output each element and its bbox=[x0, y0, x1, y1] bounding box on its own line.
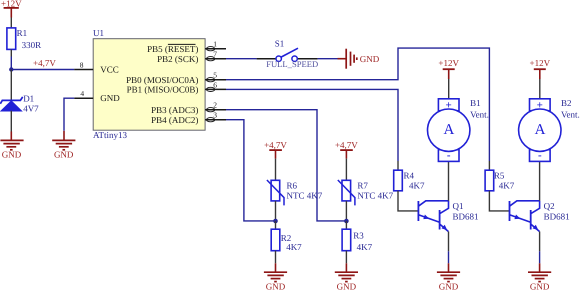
wire +4,7V to R6 bbox=[275, 159, 277, 181]
pin 3 PB4 bbox=[151, 111, 226, 125]
wire pin 4 to ground bbox=[64, 98, 74, 131]
svg-text:Q2: Q2 bbox=[544, 201, 555, 211]
svg-text:GND: GND bbox=[337, 282, 357, 291]
power +12V symbol above B2 bbox=[530, 58, 551, 79]
svg-text:+12V: +12V bbox=[438, 58, 459, 68]
svg-text:+4,7V: +4,7V bbox=[335, 140, 358, 150]
svg-text:U1: U1 bbox=[93, 28, 104, 38]
wire S1 to GND bbox=[318, 58, 338, 60]
ground symbol right of S1 (horizontal) bbox=[338, 49, 380, 69]
svg-text:4K7: 4K7 bbox=[499, 180, 515, 190]
ground symbol below R3 bbox=[335, 263, 358, 291]
wire pin 5 to R5 column bbox=[226, 48, 489, 161]
svg-text:GND: GND bbox=[100, 93, 120, 103]
motor B1 Vent. bbox=[428, 98, 489, 162]
wire +12V to motor B1 bbox=[448, 79, 450, 99]
wire R3 to GND bbox=[345, 251, 347, 264]
wire R7 to node bbox=[345, 201, 347, 221]
svg-text:A: A bbox=[535, 122, 546, 138]
svg-text:B1: B1 bbox=[470, 98, 481, 108]
svg-text:R5: R5 bbox=[494, 170, 505, 180]
wire R4 to Q1 base bbox=[398, 191, 418, 211]
svg-text:R6: R6 bbox=[287, 180, 298, 190]
pin 2 PB3 bbox=[151, 101, 226, 115]
transistor Q2 BD681 (darlington) bbox=[510, 201, 570, 232]
svg-text:R7: R7 bbox=[357, 180, 368, 190]
wire pin 2 to R7/R3 node bbox=[226, 110, 346, 221]
svg-text:3: 3 bbox=[213, 111, 217, 120]
wire pin 7 to switch S1 bbox=[226, 58, 257, 60]
junction node R6/R2 bbox=[273, 219, 278, 224]
svg-text:PB0 (MOSI/OC0A): PB0 (MOSI/OC0A) bbox=[126, 75, 198, 85]
svg-text:1: 1 bbox=[213, 40, 217, 49]
svg-text:BD681: BD681 bbox=[544, 212, 570, 222]
wire R5 to Q2 base bbox=[489, 191, 509, 211]
svg-text:GND: GND bbox=[54, 150, 74, 160]
transistor Q1 BD681 (darlington) bbox=[418, 201, 478, 232]
svg-text:NTC 4K7: NTC 4K7 bbox=[287, 190, 323, 200]
wire pin 6 to R4 bbox=[226, 89, 398, 161]
pin 4 GND stub bbox=[74, 89, 120, 103]
motor B2 Vent. bbox=[519, 98, 580, 162]
svg-text:+12V: +12V bbox=[530, 58, 551, 68]
svg-text:PB2 (SCK): PB2 (SCK) bbox=[157, 54, 198, 64]
power +4,7V symbol above R6 bbox=[264, 140, 287, 158]
IC U1 ATtiny13 body bbox=[93, 28, 205, 140]
wire R6 to node bbox=[275, 201, 277, 221]
wire R2 to GND bbox=[275, 251, 277, 264]
junction node R7/R3 bbox=[344, 219, 349, 224]
svg-text:4K7: 4K7 bbox=[409, 180, 425, 190]
thermistor R7 NTC 4K7 bbox=[338, 180, 394, 205]
wire +4,7V rail to VCC pin 8 bbox=[11, 69, 74, 71]
wire stub into R4 bbox=[397, 161, 399, 170]
ground symbol below D1 bbox=[0, 132, 23, 160]
svg-text:PB3 (ADC3): PB3 (ADC3) bbox=[151, 105, 198, 115]
svg-text:GND: GND bbox=[530, 282, 550, 291]
svg-text:R3: R3 bbox=[353, 230, 364, 240]
svg-text:8: 8 bbox=[80, 60, 84, 69]
wire +12V to motor B2 bbox=[539, 79, 541, 99]
svg-text:PB4 (ADC2): PB4 (ADC2) bbox=[151, 115, 198, 125]
svg-text:6: 6 bbox=[213, 80, 217, 89]
wire Q1 emitter to GND bbox=[448, 232, 450, 252]
svg-text:GND: GND bbox=[266, 282, 286, 291]
ground symbol below Q1 bbox=[437, 263, 460, 291]
svg-text:B2: B2 bbox=[561, 98, 572, 108]
power +12V symbol above B1 bbox=[438, 58, 459, 79]
svg-text:4K7: 4K7 bbox=[286, 242, 302, 252]
pin 6 PB1 bbox=[127, 80, 226, 94]
svg-text:PB1 (MISO/OC0B): PB1 (MISO/OC0B) bbox=[127, 85, 199, 95]
wire node to R3 bbox=[345, 221, 347, 229]
svg-text:330R: 330R bbox=[22, 40, 42, 50]
svg-text:+4,7V: +4,7V bbox=[33, 58, 56, 68]
svg-text:S1: S1 bbox=[275, 38, 285, 48]
svg-text:4V7: 4V7 bbox=[23, 104, 39, 114]
svg-text:GND: GND bbox=[2, 150, 22, 160]
svg-text:+4,7V: +4,7V bbox=[264, 140, 287, 150]
resistor R2 4K7 bbox=[271, 229, 302, 252]
svg-text:+: + bbox=[446, 99, 452, 111]
resistor R3 4K7 bbox=[342, 229, 372, 252]
wire R1 to node +4,7V bbox=[10, 49, 12, 56]
zener diode D1 4V7 bbox=[0, 94, 39, 114]
wire node to R2 bbox=[275, 221, 277, 229]
ground symbol below R2 bbox=[264, 263, 287, 291]
svg-text:ATtiny13: ATtiny13 bbox=[93, 130, 128, 140]
resistor R4 4K7 bbox=[394, 170, 425, 191]
svg-text:R4: R4 bbox=[404, 170, 415, 180]
ground symbol below Q2 bbox=[528, 263, 551, 291]
wire +12V to R1 bbox=[10, 18, 12, 29]
svg-text:GND: GND bbox=[360, 54, 380, 64]
wire +4,7V to R7 bbox=[345, 159, 347, 181]
svg-text:5: 5 bbox=[213, 71, 217, 80]
svg-text:Vent.: Vent. bbox=[470, 110, 489, 120]
svg-text:-: - bbox=[447, 150, 451, 162]
svg-text:NTC 4K7: NTC 4K7 bbox=[357, 190, 393, 200]
resistor R1 330R bbox=[7, 28, 41, 50]
svg-text:+: + bbox=[537, 99, 543, 111]
thermistor R6 NTC 4K7 bbox=[267, 180, 323, 205]
wire stub into R5 bbox=[488, 161, 490, 170]
pin 5 PB0 bbox=[126, 71, 226, 85]
svg-text:Q1: Q1 bbox=[453, 201, 464, 211]
wire motor B2 to Q2 collector bbox=[539, 161, 541, 200]
svg-text:7: 7 bbox=[213, 50, 217, 59]
resistor R5 4K7 bbox=[485, 170, 515, 191]
svg-text:FULL_SPEED: FULL_SPEED bbox=[266, 59, 318, 69]
svg-text:4K7: 4K7 bbox=[357, 242, 373, 252]
pin 1 PB5/RESET bbox=[147, 40, 226, 54]
svg-text:GND: GND bbox=[439, 282, 459, 291]
junction node +4,7V bbox=[9, 67, 13, 71]
svg-text:4: 4 bbox=[80, 89, 84, 98]
svg-text:VCC: VCC bbox=[100, 65, 119, 75]
svg-text:2: 2 bbox=[213, 101, 217, 110]
wire junction to D1 bbox=[10, 70, 12, 101]
wire pin 3 to R6/R2 node bbox=[226, 120, 276, 221]
wire Q2 emitter to GND bbox=[539, 232, 541, 252]
pin 7 PB2/SCK bbox=[157, 50, 226, 64]
wire D1 to GND bbox=[10, 111, 12, 132]
power +4,7V symbol above R7 bbox=[335, 140, 358, 158]
svg-text:BD681: BD681 bbox=[453, 212, 479, 222]
svg-text:-: - bbox=[538, 150, 542, 162]
svg-text:D1: D1 bbox=[23, 94, 34, 104]
switch S1 FULL_SPEED bbox=[257, 38, 319, 69]
svg-text:PB5 (RESET): PB5 (RESET) bbox=[147, 44, 198, 54]
svg-text:A: A bbox=[443, 122, 454, 138]
pin 8 VCC stub bbox=[74, 60, 119, 74]
wire motor B1 to Q1 collector bbox=[448, 161, 450, 200]
svg-text:R1: R1 bbox=[17, 28, 28, 38]
svg-text:Vent.: Vent. bbox=[561, 110, 580, 120]
ground symbol below pin 4 bbox=[52, 131, 75, 160]
power +12V rail symbol (left) bbox=[1, 0, 22, 17]
